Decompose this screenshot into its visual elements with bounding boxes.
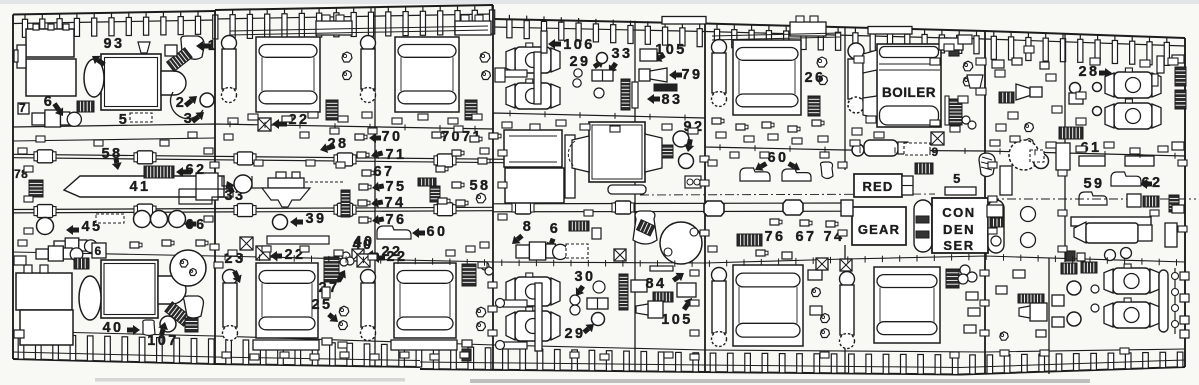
BOILER block: [877, 44, 941, 127]
vessel pair right top A: [1114, 72, 1152, 98]
small circle left of vessels: [1093, 83, 1102, 92]
arrow 60 left: [755, 162, 764, 171]
circle below 33: [594, 88, 604, 98]
ladder hatch lower-left: [165, 302, 191, 326]
lower port shaft / center shaft: [13, 207, 493, 209]
circle 29 target: [597, 53, 608, 64]
dark ladder boiler right: [949, 99, 962, 125]
engine intake column right bottom: [712, 268, 727, 283]
machine blob 1 upper-left: [181, 36, 204, 59]
svg-text:CON: CON: [942, 205, 975, 220]
ladder hatch upper-left: [167, 48, 193, 72]
arrow 33b: [237, 178, 246, 187]
arrow 22 mid: [366, 250, 373, 260]
aux boiler block upper-left: [26, 29, 74, 57]
comb lower left panel4: [737, 234, 762, 246]
centerline right panel: [990, 198, 1196, 200]
vertical comb left: [29, 180, 43, 197]
turbine cheek right: [645, 134, 662, 172]
dome cone machine: [633, 211, 657, 244]
svg-text:39: 39: [306, 211, 327, 227]
boxes left bottom right: [1052, 295, 1064, 306]
xbox mid: [240, 237, 253, 250]
8-circles cluster a: [342, 252, 350, 260]
blob right of trucks: [821, 162, 834, 179]
upper platform line: [13, 113, 1185, 156]
xbox 22 lower target: [256, 246, 270, 260]
valve clouds right engine: [817, 57, 827, 67]
right edge bits 975: [976, 58, 986, 65]
svg-text:75: 75: [386, 179, 407, 195]
big circle 985 panel: [1009, 140, 1039, 170]
shaft coupling: [437, 154, 453, 167]
circles 985 mid: [1021, 207, 1036, 222]
valve cloud lower 2a: [476, 307, 486, 317]
comb right engine: [808, 96, 820, 116]
fit 76: [359, 217, 368, 223]
svg-text:5: 5: [119, 112, 129, 128]
comb 62 target: [144, 166, 174, 178]
box 105 target: [640, 49, 657, 61]
svg-text:5: 5: [953, 171, 963, 186]
valve cloud lower 1b: [339, 321, 348, 330]
arrow 79: [669, 70, 676, 80]
bulkhead frame 4: [492, 5, 494, 369]
boiler intake column: [848, 43, 864, 59]
engine intake column lower: [361, 270, 376, 285]
svg-text:84: 84: [646, 276, 667, 292]
arrow 45: [66, 225, 73, 235]
arrow 58: [112, 162, 122, 170]
svg-text:BOILER: BOILER: [882, 85, 936, 100]
machinery bottom 845-985: engine: [840, 272, 855, 287]
combs lower right: [1061, 263, 1077, 274]
bulkhead right edge: [1184, 38, 1186, 367]
valve cloud 1: [342, 52, 352, 62]
cone machine bottom: [648, 301, 663, 318]
comb lower engine2: [462, 264, 476, 286]
three circles 66 target: [134, 211, 151, 228]
bits bottom 985: [996, 286, 1007, 294]
cheek right lower-left: [158, 276, 186, 304]
circle trio: [960, 265, 970, 275]
vertical pipe vessels bottom: [535, 283, 542, 351]
RED GEAR box: [854, 174, 902, 197]
svg-text:30: 30: [575, 269, 596, 285]
arrow 93: [92, 56, 101, 64]
dark pot lower-left: [185, 318, 198, 332]
thin pipes right top: [1157, 56, 1164, 73]
arrow 29 bottom: [585, 324, 594, 332]
bulkhead left edge: [12, 15, 14, 360]
circle 92 target: [673, 131, 689, 147]
pipe runs right panel: [712, 33, 840, 36]
manifold right of boiler: [939, 38, 963, 50]
pump row lower-left band: [36, 249, 48, 259]
turbine cheek left: [572, 136, 589, 172]
ladder comb center bottom: [619, 274, 628, 310]
steps platform: [179, 189, 233, 204]
valve cloud lower 1a: [339, 306, 349, 316]
svg-text:76: 76: [765, 229, 786, 245]
shaft coupling: [337, 203, 353, 216]
svg-text:71: 71: [386, 147, 407, 163]
svg-text:107: 107: [147, 333, 178, 349]
manifold boxes on top: [316, 21, 352, 35]
shaft coupling: [515, 201, 531, 214]
main turbine center: [589, 122, 645, 182]
svg-text:59: 59: [1084, 176, 1105, 192]
fits right column: [432, 132, 441, 138]
dashed platform 66: [96, 214, 124, 223]
bits right column 845 bottom: [966, 292, 978, 300]
circle pair right: [679, 154, 694, 169]
shelf bar under engine: [253, 340, 319, 350]
svg-text:93: 93: [104, 36, 125, 52]
svg-text:33: 33: [612, 46, 633, 62]
fit 7071: [489, 133, 498, 139]
roller engine2: [465, 100, 477, 120]
pots above engine lower: [322, 287, 330, 298]
arrow 30: [576, 287, 584, 296]
aux block left center: [504, 130, 562, 167]
svg-text:58: 58: [102, 146, 123, 162]
arrow 84: [675, 273, 684, 281]
twin box bottom: [587, 298, 608, 309]
boiler trapezoid link bottom: [863, 96, 877, 118]
diesel engine block lower: [394, 263, 456, 338]
small fits below engines: [322, 338, 332, 345]
tank 41 torpedo: [64, 176, 224, 197]
arrow 22: [272, 119, 279, 129]
svg-text:22: 22: [387, 249, 408, 265]
valve cloud lower 2b: [477, 322, 486, 331]
xbox panel4 bottom: [816, 258, 828, 270]
bits right col upper: [1172, 55, 1184, 63]
bulkhead frame 7 lower: [844, 245, 846, 373]
shaft coupling: [37, 205, 53, 218]
svg-text:79: 79: [682, 67, 703, 83]
engine intake column: [361, 36, 376, 51]
clouds 985: [1025, 123, 1034, 132]
cloud under 58: [476, 193, 486, 203]
CONDENSER box: [932, 198, 988, 253]
svg-text:67: 67: [796, 229, 817, 245]
tall capsule right bottom: [1159, 270, 1168, 332]
svg-text:67: 67: [374, 164, 395, 180]
clouds right of boiler: [963, 61, 973, 71]
pot 40 target: [143, 320, 155, 336]
arrow 92: [684, 144, 694, 152]
svg-text:83: 83: [662, 92, 683, 108]
small bits row mid: [130, 242, 139, 248]
svg-text:6: 6: [94, 244, 103, 258]
right edge fitting column: [1180, 272, 1189, 280]
hatched comb 27 target: [324, 257, 339, 282]
arrow 28 right: [1105, 68, 1112, 78]
svg-text:40: 40: [103, 320, 124, 336]
svg-text:70: 70: [382, 129, 403, 145]
bulkhead frame 9 lower: [1048, 258, 1050, 374]
big circle center low: [660, 222, 702, 264]
frame ticks top: [24, 14, 26, 19]
vertical pipe between vessels: [541, 31, 547, 53]
diesel engine block upper: [395, 37, 459, 112]
shaft coupling: [237, 204, 253, 217]
small fits panel4 upper: [712, 118, 721, 124]
arrow 23: [233, 275, 242, 284]
manifold boxes: [790, 22, 826, 36]
bulkhead frame 8: [984, 31, 986, 374]
extra scatter right upper band: [995, 70, 1005, 77]
tick stubs on upper platform line: [229, 121, 231, 127]
box 105 bottom target: [677, 283, 696, 297]
tall rect 985 panel: [1000, 166, 1012, 195]
valve column right bottom: [1174, 268, 1176, 334]
box right of ladder: [631, 280, 647, 292]
caption smudge: [95, 378, 405, 382]
condenser right capsule: [988, 200, 1004, 253]
turbine bulge right: [161, 71, 186, 95]
svg-text:RED: RED: [862, 179, 893, 194]
trapezoid machine: [967, 75, 983, 88]
svg-text:8: 8: [523, 219, 533, 235]
box 7 symbol: [18, 103, 29, 114]
fitting on bulkhead 493: [495, 68, 505, 82]
arrow 8: [512, 236, 521, 244]
cheek oval lower-left: [79, 276, 101, 320]
clouds left bottom 845: [821, 314, 830, 323]
svg-text:28: 28: [1079, 64, 1100, 80]
machine circle 2-3 area: [171, 92, 203, 118]
diesel engine block upper: [256, 37, 320, 112]
arrow 71: [371, 149, 379, 159]
truck 62 target: [1111, 172, 1141, 186]
circle machine 107 target: [160, 316, 176, 332]
thin bar 84 target: [650, 266, 673, 271]
dark bits bottom left corner panel: [1066, 251, 1075, 261]
aux boiler block lower-left: [16, 273, 72, 310]
big coupling 1: [704, 201, 724, 216]
dashed leader: [305, 181, 345, 183]
vessel pair right top B: [1114, 103, 1152, 129]
boiler vessel bottom B: [515, 311, 551, 341]
xbox bottom left 845: [840, 259, 852, 271]
arrow 105 top: [654, 53, 663, 62]
arrow 27: [337, 270, 346, 279]
arrow 105 bottom: [684, 298, 692, 307]
mid lower platform line: [13, 252, 1185, 263]
diesel engine block lower: [256, 263, 318, 338]
bits top 985: [992, 60, 1004, 68]
shaft coupling: [615, 201, 631, 214]
arrow 107: [158, 322, 168, 330]
svg-text:7: 7: [19, 101, 28, 115]
scatter fits lower band: [222, 352, 231, 358]
xbox 40: [357, 254, 370, 267]
shaft coupling: [137, 204, 153, 217]
truck 60a: [740, 168, 770, 181]
8-circles cluster b: [481, 262, 489, 270]
top edge step box 2: [868, 27, 912, 35]
engine intake column lower: [223, 270, 238, 285]
flange right of RED: [902, 176, 913, 195]
manifold boxes on top: [455, 21, 491, 35]
arrow 60 right: [791, 162, 800, 171]
cone pump upper 985: [1016, 84, 1030, 100]
arrow 62 right: [1140, 179, 1147, 189]
big coupling 2: [783, 200, 803, 215]
svg-text:29: 29: [570, 54, 591, 70]
shaft stub into gear: [841, 200, 853, 216]
bulkhead frame 6: [704, 24, 706, 372]
fits above 76 67 74: [770, 219, 779, 225]
arrow 22 lower-left: [270, 251, 277, 261]
circle near 30: [593, 281, 605, 293]
shaft centerline dash-dot: [640, 194, 935, 195]
dark comb 84 area: [653, 292, 673, 302]
thin bar 5: [945, 187, 976, 195]
cone 79 target: [639, 69, 650, 81]
long thin bar lower mid: [267, 236, 329, 244]
dashed aux: [130, 113, 152, 122]
small pot: [592, 228, 601, 239]
bar 61 b: [1125, 156, 1154, 166]
arrow 75: [372, 182, 380, 192]
pump row lower-left of panel: [32, 113, 45, 125]
comb center low: [569, 221, 589, 231]
boxed 6 label: [92, 243, 106, 258]
pump cluster bottom 985: [1018, 294, 1044, 303]
circle 45 target: [37, 218, 54, 235]
comb lower-left: [74, 258, 89, 269]
bulkhead frame 3: [374, 8, 376, 367]
hull top inner deck line: [13, 20, 215, 24]
hull bottom inner line: [13, 352, 420, 361]
xbox 22 target: [258, 118, 271, 131]
svg-text:2: 2: [176, 95, 186, 111]
fit 67: [362, 170, 371, 176]
arrow 33 top: [609, 64, 617, 73]
svg-text:105: 105: [661, 312, 692, 328]
fit 70: [355, 134, 364, 140]
shaft coupling: [137, 151, 153, 164]
vert comb right centerline: [1169, 195, 1179, 212]
stacked machine left of vessels: [1070, 83, 1081, 94]
xbox 9: [931, 132, 944, 145]
bulkhead frame 5: [634, 21, 636, 372]
arrow 106: [548, 39, 555, 49]
comb upper 985: [999, 92, 1014, 103]
box circles: [685, 176, 701, 188]
funnel small: [138, 42, 150, 53]
diesel engine right top: [733, 40, 801, 115]
comb near 9: [915, 163, 933, 174]
two pots under 29: [574, 69, 582, 77]
diesel engine right bottom: [733, 265, 803, 346]
scatter fits mid band: [24, 166, 33, 172]
arrow 76: [372, 215, 380, 225]
pipe assembly left bottom: [503, 300, 527, 307]
boiler trapezoid link top: [863, 50, 877, 73]
pots 30 target: [570, 295, 580, 305]
engine intake column: [222, 36, 237, 51]
valve cluster 985 low: [987, 205, 1003, 217]
square box small: [165, 45, 177, 56]
tall rect left of 61: [1056, 143, 1070, 170]
arrow 22 third: [372, 253, 379, 263]
svg-text:6: 6: [550, 221, 560, 237]
truck 60b: [782, 169, 811, 181]
arrow 74: [371, 198, 379, 208]
svg-text:41: 41: [130, 179, 151, 195]
fits row under: [756, 250, 765, 256]
ladder comb 83: [621, 79, 630, 110]
turbine oval left: [84, 59, 104, 97]
truck 60 target: [377, 226, 411, 239]
bar 61 a: [1079, 156, 1105, 166]
hatched roller: [77, 101, 94, 112]
svg-text:106: 106: [563, 37, 594, 53]
8 circles boiler: [962, 116, 970, 124]
svg-text:25: 25: [312, 297, 333, 313]
hanger small: [222, 176, 236, 186]
svg-text:6: 6: [44, 94, 54, 110]
dark comb below left: [1059, 127, 1083, 139]
shelf bar under engine: [391, 340, 457, 350]
dark bar: [654, 84, 677, 91]
bits right of engine bottom: [808, 270, 822, 280]
main engine lower-left: [101, 260, 158, 318]
circle pair bottom right: [1067, 281, 1081, 295]
valve cloud 2: [480, 52, 490, 62]
fit 74: [358, 200, 367, 206]
dark bits bottom: [462, 349, 471, 361]
arrow 62: [176, 167, 183, 177]
shaft coupling: [37, 150, 53, 163]
bar under turbine: [608, 185, 646, 194]
arrow 39: [290, 217, 297, 227]
svg-text:60: 60: [768, 150, 789, 166]
main engine upper-left U/L: [101, 54, 161, 110]
boiler vessel bottom A: [515, 277, 551, 306]
top edge step box 1: [662, 17, 706, 25]
carriage assembly mid: [268, 178, 304, 188]
left edge fits lower: [14, 256, 26, 265]
svg-text:29: 29: [565, 326, 586, 342]
scatter fits upper band: [228, 118, 238, 124]
lower platform line: [13, 331, 1185, 352]
xbox center low: [614, 249, 626, 261]
frame ticks bottom: [18, 334, 24, 359]
egg machine right top: [979, 153, 995, 177]
arrow 83: [647, 94, 654, 104]
svg-text:DEN: DEN: [943, 222, 975, 237]
bulkhead frame 2: [214, 10, 216, 364]
svg-text:9: 9: [931, 145, 940, 159]
hull bottom edge line: [13, 359, 420, 367]
twin box 33 target: [592, 70, 613, 81]
hatched roller right of engine 1: [326, 100, 338, 120]
arrow 66: [184, 219, 191, 229]
dashed box 9: [904, 143, 930, 155]
circle fit mid: [234, 175, 252, 193]
arrow 25: [329, 314, 338, 322]
upper port shaft: [13, 154, 505, 159]
svg-text:SER: SER: [943, 238, 974, 253]
arrow 70: [369, 133, 376, 143]
pump machines on centerline: [1127, 194, 1141, 207]
